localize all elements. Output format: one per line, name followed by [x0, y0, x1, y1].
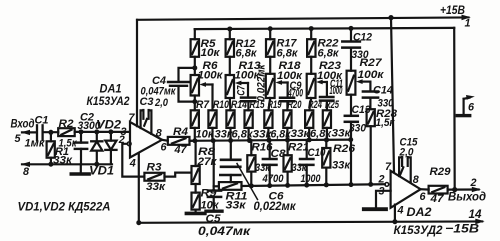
node junction dot VD1 top — [94, 129, 99, 134]
capacitor C6 top plate — [221, 159, 240, 162]
resistor R10 body — [208, 110, 216, 128]
wire R10 wiper column — [211, 85, 213, 111]
capacitor C2 bottom plate — [75, 148, 87, 150]
capacitor C5 top plate — [208, 189, 221, 192]
node junction dot R1 ground — [48, 162, 53, 167]
wire R8 to R9 — [195, 184, 197, 193]
potentiometer R13 body — [226, 75, 234, 98]
wire C3 left lead to DA1 pin1 — [141, 110, 144, 128]
capacitor C6 middle plate — [221, 166, 240, 169]
svg-text:8: 8 — [413, 174, 419, 186]
svg-text:С13: С13 — [352, 104, 371, 116]
node junction dot R25 R26 bus A — [324, 137, 329, 142]
svg-text:8: 8 — [23, 166, 29, 178]
capacitor C14 top plate — [363, 90, 378, 93]
node output arrow terminal 2 — [472, 187, 481, 193]
svg-text:6,8к: 6,8к — [277, 48, 299, 60]
wire R23 wiper down to C11 — [326, 82, 328, 96]
wire R12 top lead — [229, 29, 231, 39]
svg-text:2: 2 — [378, 174, 385, 186]
wire R1 bottom lead to ground rail — [50, 158, 52, 165]
node ground rail arrow terminal 8 — [21, 162, 30, 167]
wire C8 bottom lead to bus B — [269, 165, 271, 186]
svg-text:Вход: Вход — [11, 117, 35, 131]
svg-text:−15В: −15В — [445, 222, 479, 236]
wire DA1 output to R4 — [162, 139, 168, 142]
capacitor C12 bottom plate — [342, 46, 360, 49]
wire bus B (DA2 inverting input bus) — [242, 184, 385, 186]
svg-text:VD2: VD2 — [96, 117, 121, 131]
wire input ground rail — [22, 163, 112, 165]
wire DA1 pin4 supply down to -15V rail — [138, 154, 140, 223]
capacitor C4 bottom plate — [170, 85, 187, 87]
wire C3 right lead to DA1 pin8 — [149, 110, 152, 133]
capacitor C1 right plate — [41, 125, 43, 140]
node junction dot VD1 bottom — [94, 162, 99, 167]
wire C8 top lead — [269, 140, 271, 158]
node junction dot R10 bus A — [211, 138, 216, 143]
svg-text:2: 2 — [470, 177, 477, 189]
capacitor C13 top plate — [345, 115, 358, 118]
capacitor C4 top plate — [168, 81, 189, 83]
capacitor C11 bottom plate — [320, 99, 333, 102]
wire input to C1 — [22, 131, 36, 133]
potentiometer R6 body — [191, 75, 199, 96]
svg-text:R3: R3 — [147, 161, 162, 173]
capacitor C10 bottom plate — [300, 164, 313, 167]
wire R22 top lead — [310, 29, 312, 40]
svg-text:R29: R29 — [430, 166, 451, 178]
diode VD1 — [91, 132, 102, 164]
svg-text:4700: 4700 — [287, 87, 303, 99]
wire C10 bottom lead to bus B — [306, 165, 308, 185]
resistor R26 body — [322, 148, 330, 168]
wire -15V rail bottom — [139, 221, 482, 222]
wiper arrow R13 — [235, 81, 248, 86]
svg-text:6: 6 — [420, 191, 427, 203]
svg-text:47: 47 — [429, 193, 444, 205]
resistor R22 body — [307, 39, 315, 57]
potentiometer R23 body — [307, 74, 316, 98]
wire bus A (DA1 output bus) — [190, 140, 350, 141]
wire bus B left segment to R11 — [214, 185, 219, 187]
ground symbol DA2 pin3 — [364, 207, 386, 211]
wire R2 to DA1 pin3 — [75, 131, 130, 133]
svg-text:0,047мк: 0,047мк — [141, 85, 176, 97]
node junction dot R12 rail — [227, 26, 232, 31]
wire DA1 pin2 to R3 left end — [122, 144, 144, 177]
node junction dot DA1 pin4 on -15V rail — [136, 220, 141, 225]
resistor R20 body — [283, 110, 291, 128]
svg-text:33к: 33к — [332, 159, 351, 171]
capacitor C10 top plate — [300, 158, 313, 161]
capacitor C3 left plate — [142, 110, 144, 119]
resistor R3 body — [144, 173, 164, 181]
capacitor C6 lower plate — [220, 174, 240, 177]
node junction dot R16 bus B — [249, 183, 254, 188]
wire R21 bottom lead to bus B — [287, 172, 289, 186]
resistor R16 body — [247, 155, 255, 171]
resistor R12 body — [226, 39, 234, 57]
capacitor C14 bottom plate — [363, 96, 378, 99]
svg-text:10к: 10к — [201, 47, 221, 59]
wire C12 top lead — [350, 28, 352, 40]
wire C13 bottom lead to bus B — [350, 122, 352, 185]
capacitor C8 bottom plate — [263, 164, 277, 167]
wire R23 bottom to R24 — [309, 98, 311, 110]
wiper arrow R6 — [199, 82, 212, 87]
svg-text:VD1,VD2 КД522А: VD1,VD2 КД522А — [18, 200, 111, 214]
svg-text:R19: R19 — [268, 99, 282, 111]
svg-text:К153УД2: К153УД2 — [394, 223, 443, 237]
label DA1 pin1 stroke — [144, 119, 147, 126]
resistor R5 body — [191, 39, 199, 57]
wire R18 wiper down to C9 — [287, 83, 289, 98]
svg-text:47: 47 — [174, 144, 188, 156]
svg-text:1мк: 1мк — [25, 138, 46, 150]
resistor R25 body — [323, 110, 331, 128]
resistor R2 body — [58, 128, 74, 136]
node junction dot R15 bus A — [247, 138, 252, 143]
wire C1 to R2 signal segment — [43, 131, 59, 133]
node junction dot R22 rail — [309, 26, 314, 31]
wire C14 to R28 — [369, 98, 371, 110]
wire DA1 pin7 supply from +15V rail left border — [136, 20, 138, 126]
wire top feedback rail from DA2 output — [195, 28, 455, 29]
wire R4 to bus A junction — [190, 140, 196, 142]
wire R29 to output terminal — [448, 188, 479, 190]
resistor R4 body — [168, 137, 190, 145]
svg-text:1: 1 — [465, 17, 471, 29]
wire C10 top lead — [306, 140, 308, 158]
wire DA2 output to R29 — [421, 188, 429, 191]
wire C6 bottom lead to R11 — [230, 175, 232, 182]
ground symbol below C5 — [206, 209, 222, 212]
svg-text:Выход: Выход — [448, 190, 486, 204]
potentiometer R27 body — [347, 71, 356, 95]
wire C2 bottom lead — [80, 149, 82, 164]
callout line C6 — [237, 164, 258, 200]
node junction dot +15V to DA2 pin7 — [388, 15, 393, 20]
node junction dot R24 bus A — [307, 137, 312, 142]
wire DA2 pin7 supply vertical from +15V rail — [391, 18, 394, 173]
node junction dot C1-R1 — [48, 130, 53, 135]
wire R26 bottom lead to bus B — [325, 168, 327, 185]
wire R18 bottom to R19 — [269, 98, 271, 110]
resistor R15 body — [245, 110, 253, 128]
capacitor C1 left plate — [36, 125, 38, 140]
svg-text:3: 3 — [379, 185, 385, 197]
wire C15 right lead to DA2 pin8 — [408, 157, 411, 182]
wire R14 bottom lead to bus A — [229, 128, 231, 141]
svg-text:7: 7 — [385, 161, 392, 173]
wire R28 bottom lead to bus B — [370, 126, 372, 184]
capacitor C11 top plate — [320, 96, 333, 99]
svg-text:4: 4 — [129, 157, 136, 169]
capacitor C2 top plate — [75, 141, 87, 143]
capacitor C8 top plate — [263, 158, 277, 161]
node junction dot C12 rail — [349, 26, 354, 31]
svg-text:К153УА2: К153УА2 — [87, 94, 130, 108]
chassis terminal 6 symbol — [457, 95, 475, 116]
wire R13 wiper down to C7 — [247, 83, 249, 97]
capacitor C7 top plate — [241, 96, 255, 99]
svg-text:С3: С3 — [140, 96, 154, 108]
wire R27 bottom to C13 — [350, 95, 352, 115]
svg-text:1,5к: 1,5к — [376, 117, 395, 129]
capacitor C3 right plate — [148, 110, 150, 119]
node junction dot C10 bus B — [304, 183, 309, 188]
wire C4 bottom lead to node R6-R7 — [179, 87, 195, 102]
wire R7 bottom lead to bus A — [194, 128, 196, 141]
wire R1 top lead — [50, 132, 52, 141]
svg-text:1000: 1000 — [329, 85, 342, 97]
resistor R14 body — [226, 110, 234, 128]
potentiometer R18 body — [266, 74, 275, 98]
op-amp DA1 triangle — [130, 122, 162, 158]
wire C4 top lead to node R5-R6 — [179, 68, 195, 81]
wire R16 bottom lead to bus B — [250, 172, 252, 186]
wiper arrow R23 — [316, 80, 327, 85]
svg-text:100к: 100к — [358, 69, 385, 81]
wire +15V rail top — [137, 17, 469, 19]
wire C2 top lead — [80, 132, 82, 143]
wire R15 bottom lead to bus A — [248, 128, 250, 140]
capacitor C15 right plate — [407, 157, 409, 166]
capacitor C9 bottom plate — [280, 100, 294, 103]
resistor R8 body — [192, 166, 200, 184]
node DA2 pin2 inversion circle — [385, 183, 389, 187]
svg-text:2,0: 2,0 — [154, 97, 168, 109]
svg-text:6,8к: 6,8к — [318, 48, 340, 60]
diode VD2 — [105, 132, 116, 164]
node junction dot C4 bottom tap — [192, 99, 197, 104]
wire R13 bottom to R14 — [229, 98, 232, 110]
capacitor C15 left plate — [401, 157, 403, 166]
wire R27 wiper to C14 — [369, 82, 371, 91]
wire R8 top lead from bus A — [195, 141, 197, 166]
svg-text:5: 5 — [15, 133, 22, 145]
op-amp DA2 triangle — [391, 171, 421, 208]
svg-text:33к: 33к — [291, 128, 311, 140]
wire C11 to R25 — [326, 101, 328, 111]
resistor R24 body — [305, 110, 313, 128]
node junction dot C8 bus B — [267, 183, 272, 188]
wire DA2 pin3 to ground — [376, 191, 391, 208]
wire DA2 pin4 to -15V rail — [394, 205, 396, 222]
node +15V arrow terminal 1 — [462, 15, 471, 21]
label DA2 pin1 stroke — [400, 167, 404, 176]
svg-text:2,0: 2,0 — [399, 146, 414, 158]
capacitor C5 bottom plate — [208, 196, 221, 199]
node junction dot R26 bus B — [324, 182, 329, 187]
svg-text:6: 6 — [468, 101, 475, 113]
svg-text:С5: С5 — [206, 213, 222, 225]
capacitor C12 top plate — [342, 40, 360, 43]
node junction dot C4 top tap — [192, 65, 197, 70]
wire C15 left lead to DA2 pin1 — [399, 157, 402, 176]
svg-text:0,047мк: 0,047мк — [198, 224, 251, 238]
node junction dot VD2 top — [108, 129, 113, 134]
wire R25 bottom lead to bus A — [326, 128, 328, 140]
svg-text:4: 4 — [397, 205, 404, 217]
node -15V arrow terminal 14 — [475, 219, 484, 225]
svg-text:R2: R2 — [59, 118, 74, 130]
capacitor C7 bottom plate — [241, 100, 255, 103]
wire R16 top lead — [250, 140, 252, 155]
node junction dot output feedback — [452, 187, 457, 192]
wire right vertical feedback rail to output node — [453, 28, 456, 190]
svg-text:С7: С7 — [236, 85, 248, 96]
wire R22 to R23 node — [310, 57, 312, 74]
svg-text:R15: R15 — [250, 99, 266, 111]
svg-text:33к: 33к — [146, 181, 166, 193]
wire R3 right end to R8 — [165, 173, 192, 177]
wire C7 to R15 — [247, 101, 249, 110]
svg-text:R20: R20 — [288, 99, 302, 111]
svg-text:С1: С1 — [35, 115, 49, 127]
wire R17 top lead — [269, 29, 271, 39]
svg-text:100к: 100к — [198, 70, 224, 82]
wiper arrow R27 — [356, 79, 370, 84]
node DA1 pin2 inversion circle — [127, 142, 131, 146]
node junction dot R20 bus A — [285, 138, 290, 143]
wire R19 bottom lead to bus A — [267, 128, 269, 140]
svg-text:DA2: DA2 — [407, 205, 432, 219]
node junction dot R19 C8 bus A — [266, 138, 271, 143]
wire R24 bottom lead to bus A — [308, 128, 310, 140]
node junction dot C2 top — [79, 129, 84, 134]
svg-text:10к: 10к — [196, 128, 215, 140]
node junction dot C13 bus A end — [348, 137, 353, 142]
svg-text:R26: R26 — [333, 143, 356, 155]
capacitor C13 bottom plate — [345, 121, 358, 124]
svg-text:+15В: +15В — [440, 3, 465, 17]
resistor R29 body — [429, 186, 448, 194]
wire R6 bottom to R7 — [194, 96, 196, 111]
wire C5 column from bus A — [213, 141, 215, 190]
resistor R21 body — [284, 155, 292, 171]
resistor R7 body — [191, 110, 199, 128]
svg-text:R27: R27 — [360, 57, 383, 69]
svg-text:4700: 4700 — [262, 173, 284, 185]
resistor R9 body — [192, 193, 200, 210]
svg-text:6,8к: 6,8к — [236, 48, 258, 60]
resistor R17 body — [266, 39, 274, 57]
svg-text:VD1: VD1 — [89, 163, 114, 177]
ground symbol below R9 — [186, 212, 205, 216]
resistor R11 body — [219, 182, 242, 190]
ground symbol below C2 — [71, 164, 89, 174]
wiper arrow R18 — [275, 80, 287, 85]
node junction dot R21 bus B — [285, 183, 290, 188]
node junction dot R14 bus A — [228, 138, 233, 143]
node junction dot C13 bus B — [349, 182, 354, 187]
resistor R19 body — [264, 110, 272, 128]
svg-text:33к: 33к — [226, 200, 247, 212]
svg-text:14: 14 — [469, 207, 482, 221]
wire C5 bottom lead — [213, 197, 215, 210]
wire R21 top lead — [287, 140, 289, 155]
svg-text:1000: 1000 — [301, 173, 321, 185]
wire R9 bottom lead — [195, 210, 197, 212]
svg-text:8: 8 — [156, 128, 162, 140]
wire C12 to R27 — [350, 48, 352, 71]
wire R26 top lead — [325, 140, 327, 148]
svg-text:R4: R4 — [173, 126, 188, 138]
capacitor C9 top plate — [280, 96, 294, 99]
svg-text:7: 7 — [129, 112, 136, 124]
svg-text:33к: 33к — [255, 162, 270, 174]
resistor R28 body — [367, 109, 375, 126]
svg-text:6: 6 — [161, 142, 168, 154]
svg-text:33к: 33к — [292, 162, 307, 174]
svg-text:0,022мк: 0,022мк — [254, 199, 297, 213]
svg-text:R25: R25 — [325, 99, 340, 111]
wire R20 bottom lead to bus A — [286, 128, 288, 140]
wire R12 to R13 node — [229, 57, 231, 75]
node input arrow terminal 5 — [21, 130, 30, 135]
wire R5 to R6 node — [194, 57, 196, 75]
wire R5 top lead — [194, 29, 196, 39]
svg-text:С12: С12 — [353, 32, 372, 44]
node junction dot R28 bus B — [368, 182, 373, 187]
wire R17 to R18 node — [269, 57, 271, 74]
resistor R1 body — [47, 141, 55, 157]
wire R10 bottom lead to bus A — [211, 128, 213, 141]
svg-text:R24: R24 — [308, 99, 322, 111]
node junction dot DA2 pin4 — [392, 219, 397, 224]
node junction dot R17 rail — [268, 26, 273, 31]
svg-text:С14: С14 — [373, 85, 393, 97]
node junction dot R7 bus A — [192, 138, 197, 143]
wire C9 to R20 — [286, 101, 288, 110]
wire C6 top lead from bus A — [230, 141, 232, 160]
